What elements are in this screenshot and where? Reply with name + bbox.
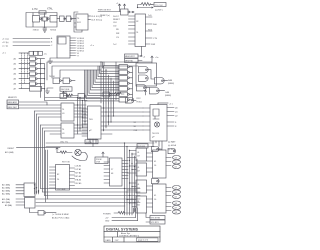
wire nand column inputs (85, 62, 120, 101)
svg-text:CAS: CAS (165, 91, 170, 94)
IC U10 latch (61, 103, 74, 121)
svg-text:2708: 2708 (96, 162, 100, 164)
svg-text:D0-D7: D0-D7 (113, 16, 120, 18)
svg-text:OSC A5: OSC A5 (75, 182, 82, 185)
nand column gates (119, 65, 129, 102)
svg-text:+5 v: +5 v (2, 53, 6, 55)
svg-text:HOLD: HOLD (137, 102, 143, 104)
boxed label BUS EN (137, 144, 148, 148)
svg-text:+5 v: +5 v (169, 103, 173, 105)
svg-text:GND: GND (105, 221, 110, 223)
svg-text:A11 (MA): A11 (MA) (2, 198, 10, 201)
note text bottom (52, 214, 70, 220)
svg-text:74S: 74S (89, 119, 93, 121)
svg-text:A12 (MA): A12 (MA) (2, 193, 10, 196)
boxed label MEMORY ADDR (7, 100, 19, 104)
U16 left pins (143, 108, 150, 130)
junction dots cpu right (103, 107, 114, 130)
nand U7B oval (139, 75, 149, 81)
svg-text:A9 (MA): A9 (MA) (5, 204, 12, 207)
vertical bus between latches and cpu (78, 98, 86, 135)
IC U24 (136, 180, 147, 193)
oval label D3 (173, 186, 181, 190)
title block (104, 226, 160, 242)
small IC left pins dots (126, 150, 132, 204)
wire +5 rail (47, 56, 153, 80)
svg-text:(a) HLDA: (a) HLDA (168, 144, 177, 147)
flip-flop U2 74S74 (76, 14, 88, 30)
U16 right pins (167, 108, 174, 127)
boxed label SYSTEM READY (150, 220, 165, 224)
svg-text:TX CLK: TX CLK (155, 5, 163, 7)
svg-text:D3: D3 (175, 187, 177, 189)
svg-text:D7: D7 (175, 207, 177, 209)
svg-text:8085A: 8085A (86, 141, 92, 144)
nand U8 right (155, 78, 165, 84)
svg-text:RDY: RDY (137, 98, 142, 100)
svg-text:RDY A2: RDY A2 (75, 172, 82, 175)
U11 left pins (41, 125, 62, 134)
U10 left pins (19, 105, 61, 117)
ground osc (43, 31, 46, 33)
svg-text:RESET: RESET (113, 19, 120, 21)
oval label D2 (173, 165, 181, 169)
svg-text:CLK: CLK (113, 22, 118, 24)
svg-text:(MEM): (MEM) (168, 83, 174, 85)
wire U16 bottom stubs (153, 141, 162, 149)
svg-text:+12 (b): +12 (b) (2, 42, 9, 44)
svg-text:MEM WRT: MEM WRT (125, 56, 136, 58)
svg-text:D2: D2 (175, 166, 177, 168)
svg-text:157: 157 (137, 171, 140, 173)
U12 left pins (82, 109, 88, 136)
resistor pack RP1 (19, 52, 29, 54)
U11 right pins (74, 125, 88, 134)
U10 right pins (74, 105, 86, 117)
wire U21 out (46, 212, 56, 214)
junction dots upper rails (77, 61, 107, 101)
svg-text:XTAL: XTAL (47, 8, 53, 11)
U4 left pin stubs (129, 16, 136, 44)
wires small to RAM2 (147, 186, 153, 207)
svg-text:S0: S0 (134, 126, 136, 128)
inverter U1B (50, 16, 57, 23)
svg-text:MEM ADR: MEM ADR (8, 101, 18, 104)
svg-text:RAS: RAS (168, 79, 173, 82)
svg-text:Q1: Q1 (175, 111, 178, 113)
wire A-row inputs (19, 59, 30, 89)
oval label D5 (173, 195, 181, 199)
IC U23 (136, 163, 147, 176)
nand oval U28 top right (168, 149, 176, 154)
svg-text:+5 v: +5 v (90, 45, 94, 47)
svg-text:RTS: RTS (148, 30, 153, 32)
gate U6C (60, 94, 67, 99)
U17 right pins (70, 168, 75, 186)
svg-text:157: 157 (137, 188, 140, 190)
wire rail y143 (46, 142, 154, 144)
U20 left pin wires (16, 199, 25, 205)
IC U5 74LS138 (57, 36, 70, 58)
wire rail y206 (36, 205, 125, 207)
wire cpu bottom stubs (90, 139, 96, 147)
vertical drops right of cpu (104, 103, 114, 131)
wire mem arrows (138, 55, 142, 60)
svg-text:CLK GEN: CLK GEN (57, 189, 66, 191)
svg-text:D1: D1 (175, 162, 177, 164)
wire +5V row (112, 217, 136, 219)
IC U19 left bottom (24, 183, 35, 197)
IC U20 left bottom 2 (25, 198, 36, 209)
wire left verticals to U17 (46, 150, 48, 202)
boxed label DECODE (60, 87, 72, 91)
svg-text:MEM DAT: MEM DAT (8, 106, 18, 109)
svg-text:CLK Φ2 (a): CLK Φ2 (a) (91, 19, 102, 22)
wire CLK phi1 out (88, 15, 91, 17)
svg-text:CLK A0: CLK A0 (75, 165, 81, 168)
decode box row7 (30, 87, 42, 92)
svg-text:A15 (MA): A15 (MA) (2, 184, 10, 187)
transistor Q1 (75, 149, 81, 155)
nand oval U29 between RAMs (152, 179, 160, 184)
wire pwr-on-reset (98, 11, 121, 13)
wire decode links (61, 81, 75, 96)
svg-text:SYS RDY: SYS RDY (151, 222, 160, 224)
svg-text:OSC TTL: OSC TTL (60, 142, 68, 144)
svg-text:D0: D0 (175, 157, 177, 159)
+5 arrow reset (56, 148, 58, 153)
svg-text:A14 (MA): A14 (MA) (2, 187, 10, 190)
U18 right pins (122, 161, 128, 179)
svg-text:Q2: Q2 (175, 115, 178, 117)
boxed label MEMORY WRITE (125, 54, 139, 58)
svg-text:RST A3: RST A3 (75, 175, 81, 178)
wire mem adr (19, 102, 47, 105)
svg-text:D4: D4 (175, 192, 177, 194)
svg-text:MEMORY: MEMORY (8, 97, 18, 99)
wire to clock labels (138, 5, 155, 9)
resistor R3 (64, 94, 79, 97)
wire U16 top (157, 103, 159, 105)
svg-text:157: 157 (137, 156, 140, 158)
svg-text:(MEM): (MEM) (165, 95, 171, 97)
wire U4 bottom stub (141, 47, 144, 57)
wire power bus corners (134, 208, 138, 221)
boxed label MEMORY READ (125, 59, 139, 63)
wire address bus verticals (35, 111, 45, 196)
U12 right pins (101, 108, 143, 134)
left input wires +12/-12 (13, 39, 50, 46)
svg-text:4.7M: 4.7M (32, 8, 37, 11)
junction dots latch bus (77, 104, 86, 128)
wire rail y192 (43, 191, 141, 193)
svg-text:Q0: Q0 (175, 107, 178, 109)
oval label D8 (173, 210, 181, 214)
svg-text:Y7: Y7 (77, 56, 79, 58)
wire U20 out down (30, 208, 39, 213)
wire nand outputs (129, 67, 132, 100)
ground decode (46, 88, 54, 93)
svg-text:A10 (MA): A10 (MA) (2, 201, 10, 204)
RAM IC U30 (153, 184, 167, 213)
svg-text:AT ALL POS. LOAD): AT ALL POS. LOAD) (52, 217, 70, 220)
wire rail y188.5 (41, 188, 141, 190)
svg-text:241: 241 (137, 205, 140, 207)
crystal Y1 (43, 17, 47, 21)
svg-text:SYS STRB: SYS STRB (151, 218, 161, 220)
wire rail y202.5 (36, 202, 140, 204)
junction dots data bus (124, 142, 135, 203)
svg-text:PROM: PROM (96, 159, 102, 161)
RAM2 right pins (166, 188, 171, 211)
diode D1 curve (72, 153, 87, 161)
inverter bank rows (30, 57, 38, 86)
svg-text:( = 74LS04 IF MEM: ( = 74LS04 IF MEM (52, 214, 69, 216)
vertical pullup ties (22, 53, 28, 89)
data bus verticals right (125, 143, 138, 215)
svg-text:74S04: 74S04 (33, 30, 40, 32)
nand U9B lower (150, 88, 160, 94)
capacitor C1 (43, 27, 47, 29)
IC U11 latch (61, 123, 74, 138)
svg-text:C/D: C/D (113, 26, 117, 28)
wire bank collectors (41, 59, 45, 101)
svg-text:CTS: CTS (153, 38, 158, 40)
resistor R6 squiggle (114, 211, 134, 214)
junction dot txc (137, 7, 138, 8)
+5 arrow prom (102, 152, 104, 157)
wire reset (17, 147, 61, 149)
wire memr rail (60, 70, 101, 78)
resistor R2 zigzag top right (141, 3, 153, 6)
wire U9 out (145, 88, 164, 91)
oval label D1 (173, 160, 181, 164)
wire U8 out (147, 70, 167, 81)
svg-text:STB A4: STB A4 (75, 179, 81, 182)
svg-text:D5: D5 (175, 196, 177, 198)
U4 left pin labels (113, 16, 120, 46)
svg-text:MEM RD: MEM RD (125, 61, 134, 63)
+5 above gate U3 (123, 4, 125, 9)
RAM right pins (166, 158, 171, 166)
wire rail y195.5 (45, 195, 141, 197)
wire rail y199 (36, 198, 140, 200)
svg-text:TxD: TxD (148, 15, 152, 17)
boxed label SYSTEM STROBE (150, 216, 165, 220)
U19 left pin wires (16, 185, 24, 194)
nand gate U6B (63, 78, 70, 84)
svg-text:OUT A1: OUT A1 (75, 168, 82, 171)
U17 right labels (75, 165, 82, 186)
IC U25 (136, 196, 147, 213)
svg-text:PWR ON RST: PWR ON RST (98, 9, 112, 11)
IC U17 clock gen 8224 (56, 165, 70, 191)
boxed label MEMORY DATA (7, 105, 19, 109)
oval label D4 (173, 190, 181, 194)
gate small right a (103, 92, 110, 97)
middle horizontals above ICs (45, 98, 100, 101)
svg-text:-5 v (c): -5 v (c) (2, 45, 9, 47)
svg-text:page 1 of 2: page 1 of 2 (138, 240, 149, 242)
wire CLK phi2 out (88, 19, 91, 21)
wire memw rail (52, 66, 138, 78)
wire oscillator loop (26, 13, 57, 28)
svg-text:POWER: POWER (103, 214, 111, 216)
svg-text:D8: D8 (175, 212, 177, 214)
nand U9A lower (137, 85, 147, 91)
nand gate U3 (121, 9, 129, 15)
big box memory control (136, 63, 157, 86)
svg-text:RST 74S: RST 74S (62, 162, 70, 164)
junction dots bank collectors (40, 63, 45, 89)
labels left supply rows (2, 38, 9, 47)
U16 right labels (175, 107, 178, 128)
nand oval U27 above RAM (152, 147, 160, 152)
U16 inner transistor (154, 122, 159, 127)
svg-text:WR: WR (116, 33, 120, 35)
IC U18 PROM (110, 158, 123, 186)
+5V top right supply (118, 4, 120, 12)
U16 inner ff (153, 109, 159, 119)
svg-text:RxD: RxD (153, 24, 157, 26)
U5 right pins (70, 38, 76, 56)
wires into small ICs (127, 151, 136, 211)
U17 left pins (50, 167, 56, 188)
svg-text:74LS74: 74LS74 (152, 133, 160, 135)
nand U7A oval (139, 67, 149, 73)
wire +5 to U16 (158, 102, 168, 104)
svg-text:CONTROLLER REV 0: CONTROLLER REV 0 (119, 236, 140, 238)
wire osc output (57, 18, 76, 20)
top of IC U13 band: +5 arrow (62, 92, 64, 98)
svg-text:DSR: DSR (151, 44, 156, 46)
U4 right pin stubs (146, 17, 153, 44)
U5 right labels (77, 38, 84, 58)
gate U14 (78, 94, 85, 99)
inverter U1A (33, 16, 40, 23)
svg-text:D6: D6 (175, 203, 177, 205)
U16 left pin labels (134, 122, 138, 132)
svg-text:RESET (a): RESET (a) (100, 15, 110, 17)
boxed label PROM (95, 157, 108, 164)
address input rows A0-A6 (14, 58, 17, 91)
U18 left pins (104, 162, 110, 183)
ground U5 (48, 58, 57, 63)
wires to strobe labels (146, 213, 150, 222)
U19 left labels (2, 184, 10, 196)
IC U16 74LS74 big right (150, 105, 167, 142)
U20 left labels (2, 198, 12, 207)
wire U15 out (133, 99, 136, 101)
gate U21 (38, 211, 44, 216)
boxed label cpu note (85, 140, 98, 144)
wire rail y146.5 (46, 146, 154, 148)
svg-text:DIGITAL SYSTEMS: DIGITAL SYSTEMS (106, 228, 138, 232)
nand oval U15 (126, 98, 134, 104)
wire U27 (158, 148, 162, 151)
buffer U1C (60, 16, 65, 21)
svg-text:DECODE: DECODE (61, 89, 70, 91)
wire GND row (112, 220, 138, 222)
resistor R1 4.7M (39, 11, 46, 14)
wires small to RAM (147, 153, 153, 172)
svg-text:RESET: RESET (8, 148, 15, 150)
svg-text:(a) RX C: (a) RX C (155, 9, 164, 11)
vertical bus to cpu (101, 62, 118, 103)
RAM IC U26 4116 (153, 150, 167, 178)
IC U22 (136, 148, 147, 161)
wire U3 output arrow (130, 11, 134, 12)
svg-text:TxC: TxC (113, 44, 117, 46)
oval label D6 (173, 201, 181, 205)
nand gate U6A (53, 78, 60, 84)
boxed label TX CLK (154, 3, 166, 7)
svg-text:S1: S1 (134, 122, 136, 124)
wire inverter outputs (37, 59, 44, 89)
IC U12 CPU 8085 (88, 106, 102, 139)
+5 arrow right (144, 90, 146, 95)
svg-text:(a) WAIT: (a) WAIT (168, 141, 176, 144)
oval label D0 (173, 156, 181, 160)
IC U4 8251 UART (135, 14, 146, 47)
svg-text:DATE: DATE (106, 239, 112, 242)
U5 left pin labels (51, 37, 53, 47)
svg-text:A15 (MA): A15 (MA) (5, 151, 14, 154)
svg-text:74S04: 74S04 (50, 30, 57, 32)
buffer U1D (66, 16, 71, 21)
oval label D7 (173, 206, 181, 210)
U4 right pin labels (148, 15, 158, 46)
junction dots left rails (34, 184, 39, 193)
wire U2 feedback (74, 12, 82, 32)
svg-text:+5 v (a): +5 v (a) (2, 38, 9, 40)
svg-text:A13 (MA): A13 (MA) (2, 190, 10, 193)
resistor R4 (111, 92, 124, 95)
svg-text:+5v: +5v (44, 54, 47, 56)
resistor R5 (57, 151, 72, 154)
